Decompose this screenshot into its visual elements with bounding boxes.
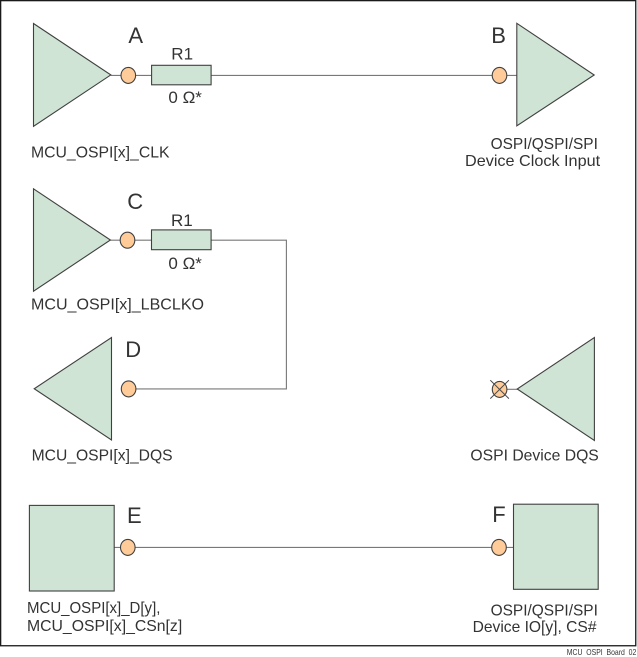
svg-text:MCU OSPI Board 02: MCU OSPI Board 02 bbox=[567, 647, 637, 657]
svg-text:OSPI/QSPI/SPI: OSPI/QSPI/SPI bbox=[491, 136, 598, 153]
svg-text:0 Ω*: 0 Ω* bbox=[168, 254, 202, 273]
svg-text:R1: R1 bbox=[171, 211, 193, 230]
svg-text:MCU_OSPI[x]_D[y],: MCU_OSPI[x]_D[y], bbox=[27, 600, 160, 617]
svg-text:R1: R1 bbox=[171, 45, 193, 64]
svg-text:Device IO[y], CS#: Device IO[y], CS# bbox=[473, 619, 597, 636]
svg-text:D: D bbox=[125, 337, 141, 362]
svg-text:C: C bbox=[127, 189, 143, 214]
svg-text:Device Clock Input: Device Clock Input bbox=[465, 153, 601, 170]
svg-text:A: A bbox=[128, 23, 143, 48]
svg-text:OSPI/QSPI/SPI: OSPI/QSPI/SPI bbox=[491, 603, 598, 620]
svg-text:OSPI Device DQS: OSPI Device DQS bbox=[470, 448, 598, 465]
svg-text:E: E bbox=[127, 503, 142, 528]
svg-text:MCU_OSPI[x]_CLK: MCU_OSPI[x]_CLK bbox=[31, 144, 170, 161]
svg-text:0 Ω*: 0 Ω* bbox=[168, 88, 202, 107]
svg-text:MCU_OSPI[x]_CSn[z]: MCU_OSPI[x]_CSn[z] bbox=[27, 618, 182, 635]
svg-text:MCU_OSPI[x]_LBCLKO: MCU_OSPI[x]_LBCLKO bbox=[31, 297, 204, 314]
svg-text:F: F bbox=[492, 502, 505, 527]
svg-text:B: B bbox=[491, 23, 506, 48]
svg-text:MCU_OSPI[x]_DQS: MCU_OSPI[x]_DQS bbox=[32, 447, 173, 464]
